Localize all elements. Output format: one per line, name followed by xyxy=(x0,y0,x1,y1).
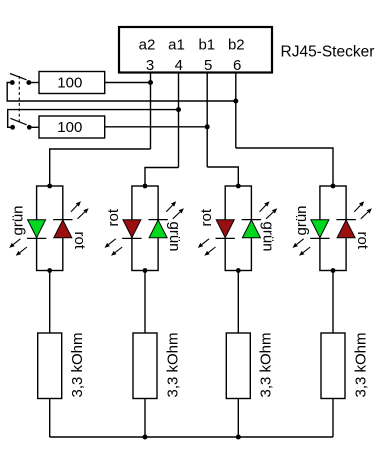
wire R4 to bottom bus xyxy=(144,399,146,438)
resistor R6 body xyxy=(321,333,345,399)
node LED block 4 top junction xyxy=(331,184,336,189)
resistor R4 value 3,3 kOhm xyxy=(164,332,181,397)
wire LED block 4 to R6 xyxy=(332,271,334,334)
LED D1 cathode bar xyxy=(27,237,46,239)
node LED block 3 bottom junction xyxy=(236,268,241,273)
svg-text:rot: rot xyxy=(71,232,88,250)
label rot for LED D5 xyxy=(198,208,215,226)
node LED block 1 top junction xyxy=(47,184,52,189)
LED D2 emission arrows (up-right) xyxy=(71,201,89,219)
wire pin5 to LED block 3 xyxy=(207,167,238,186)
label gr&#252;n for LED D1 xyxy=(10,205,27,235)
LED D5 emission arrows (down-left) xyxy=(198,239,216,256)
LED D1 emission arrows (down-left) xyxy=(9,239,27,256)
resistor R5 body xyxy=(226,333,250,399)
svg-text:grün: grün xyxy=(166,222,183,252)
node pin6/S1a junction xyxy=(233,99,238,104)
LED pair block 3 wire loop xyxy=(225,186,251,271)
pin name b1 xyxy=(198,37,215,54)
pin number 5 xyxy=(204,57,212,74)
node bus junction block2 xyxy=(143,435,148,440)
connector U1 RJ45 plug body xyxy=(119,27,272,73)
LED D4 cathode bar xyxy=(148,219,167,221)
svg-text:4: 4 xyxy=(175,57,183,74)
wire pin6 vertical xyxy=(235,73,237,149)
switch S1b blade xyxy=(10,118,26,125)
node LED block 2 bottom junction xyxy=(143,268,148,273)
LED D3 cathode bar xyxy=(122,237,141,239)
switch S1a right contact dot xyxy=(26,80,31,85)
label rot for LED D3 xyxy=(105,208,122,226)
pin name a1 xyxy=(168,37,185,54)
svg-text:rot: rot xyxy=(198,208,215,226)
pin number 6 xyxy=(233,57,241,74)
resistor R1 body xyxy=(39,72,105,94)
svg-text:a1: a1 xyxy=(168,37,185,54)
wire pin4 vertical xyxy=(178,73,180,168)
node pin3/R1 junction xyxy=(148,80,153,85)
wire R1 to pin3 vertical xyxy=(105,82,151,84)
svg-text:3,3 kOhm: 3,3 kOhm xyxy=(352,332,369,397)
LED D2 rot triangle (cathode up) xyxy=(54,220,72,238)
svg-text:rot: rot xyxy=(354,232,371,250)
node LED block 1 bottom junction xyxy=(47,268,52,273)
LED D8 emission arrows (up-right) xyxy=(354,201,372,219)
resistor R3 value 3,3 kOhm xyxy=(69,332,86,397)
resistor R2 value 100 xyxy=(57,119,82,136)
switch S1b right contact dot xyxy=(27,125,32,130)
switch S1b left contact dot xyxy=(10,125,15,130)
LED D6 emission arrows (up-right) xyxy=(260,201,278,219)
resistor R1 value 100 xyxy=(57,75,82,92)
LED D4 emission arrows (up-right) xyxy=(166,201,184,219)
LED D7 cathode bar xyxy=(310,237,329,239)
wire pin6 to LED block 4 xyxy=(236,148,333,186)
wire pin3 to LED block 1 xyxy=(50,149,151,186)
LED D3 emission arrows (down-left) xyxy=(105,239,123,256)
pin name b2 xyxy=(228,37,245,54)
svg-text:b2: b2 xyxy=(228,37,245,54)
svg-text:3,3 kOhm: 3,3 kOhm xyxy=(164,332,181,397)
resistor R2 body xyxy=(39,116,105,138)
wire pin3 vertical xyxy=(150,73,152,150)
node LED block 3 top junction xyxy=(236,184,241,189)
label gr&#252;n for LED D6 xyxy=(259,222,276,252)
LED D2 cathode bar xyxy=(53,219,72,221)
wire pin4 to LED block 2 xyxy=(145,168,179,187)
LED D7 gr&#252;n triangle (cathode down) xyxy=(311,220,329,238)
wire R3 to bottom bus xyxy=(49,399,51,438)
LED D4 gr&#252;n triangle (cathode up) xyxy=(149,220,167,238)
node pin4/S1b junction xyxy=(176,107,181,112)
svg-text:RJ45-Stecker: RJ45-Stecker xyxy=(281,44,375,61)
svg-text:grün: grün xyxy=(259,222,276,252)
svg-text:3,3 kOhm: 3,3 kOhm xyxy=(69,332,86,397)
svg-text:5: 5 xyxy=(204,57,212,74)
LED pair block 1 wire loop xyxy=(37,186,63,271)
label RJ45-Stecker xyxy=(281,44,375,61)
wire LED block 1 to R3 xyxy=(49,271,51,334)
wire S1a left contact down to pin6 bus xyxy=(7,83,236,102)
LED D5 cathode bar xyxy=(216,237,235,239)
wire R5 to bottom bus xyxy=(237,399,239,438)
node pin5/R2 junction xyxy=(205,124,210,129)
LED D8 rot triangle (cathode up) xyxy=(337,220,355,238)
wire S1a right contact to R1 xyxy=(29,82,39,84)
LED D6 cathode bar xyxy=(242,219,261,221)
switch gang link (dashed) xyxy=(18,76,20,124)
pin number 3 xyxy=(146,57,154,74)
wire common bottom bus xyxy=(50,436,333,438)
resistor R3 body xyxy=(38,333,62,399)
pin number 4 xyxy=(175,57,183,74)
svg-text:100: 100 xyxy=(57,75,82,92)
svg-text:3: 3 xyxy=(146,57,154,74)
svg-text:rot: rot xyxy=(105,208,122,226)
wire R6 to bottom bus xyxy=(332,399,334,438)
wire LED block 3 to R5 xyxy=(237,271,239,334)
LED D6 gr&#252;n triangle (cathode up) xyxy=(242,220,260,238)
switch S1a blade xyxy=(10,74,27,80)
node bus junction block3 xyxy=(236,435,241,440)
LED D3 rot triangle (cathode down) xyxy=(123,220,141,238)
wire LED block 2 to R4 xyxy=(144,271,146,334)
LED D1 gr&#252;n triangle (cathode down) xyxy=(28,220,46,238)
wire pin5 vertical xyxy=(206,73,208,168)
svg-text:a2: a2 xyxy=(139,37,156,54)
LED pair block 4 wire loop xyxy=(320,186,346,271)
LED D5 rot triangle (cathode down) xyxy=(216,220,234,238)
svg-text:100: 100 xyxy=(57,119,82,136)
label gr&#252;n for LED D4 xyxy=(166,222,183,252)
wire R2 to pin5 vertical xyxy=(105,126,208,128)
node LED block 4 bottom junction xyxy=(331,268,336,273)
wire S1b right contact to R2 xyxy=(29,126,39,128)
node LED block 2 top junction xyxy=(143,184,148,189)
label gr&#252;n for LED D7 xyxy=(293,205,310,235)
svg-text:6: 6 xyxy=(233,57,241,74)
label rot for LED D8 xyxy=(354,232,371,250)
pin name a2 xyxy=(139,37,156,54)
svg-text:3,3 kOhm: 3,3 kOhm xyxy=(258,332,275,397)
svg-text:grün: grün xyxy=(10,205,27,235)
label rot for LED D2 xyxy=(71,232,88,250)
LED D7 emission arrows (down-left) xyxy=(293,239,311,256)
wire S1b left contact up to pin4 bus xyxy=(8,110,179,128)
LED pair block 2 wire loop xyxy=(132,186,158,271)
switch S1a left contact dot xyxy=(10,80,15,85)
svg-text:grün: grün xyxy=(293,205,310,235)
LED D8 cathode bar xyxy=(336,219,355,221)
resistor R6 value 3,3 kOhm xyxy=(352,332,369,397)
resistor R5 value 3,3 kOhm xyxy=(258,332,275,397)
svg-text:b1: b1 xyxy=(198,37,215,54)
resistor R4 body xyxy=(133,333,157,399)
